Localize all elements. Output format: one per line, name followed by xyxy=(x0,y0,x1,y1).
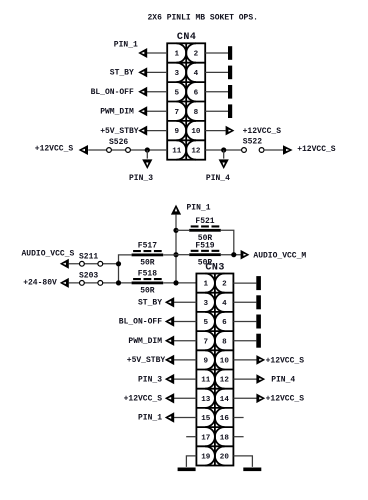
port arrow PWM_DIM xyxy=(138,106,147,116)
wire S522 to arrow xyxy=(264,149,283,151)
svg-text:S526: S526 xyxy=(109,138,128,147)
terminal bar pin 6 CN3 xyxy=(256,315,261,329)
svg-text:8: 8 xyxy=(194,109,199,117)
wire F521 right to F519 out xyxy=(221,230,234,254)
svg-text:F521: F521 xyxy=(195,217,214,226)
port arrow +12VCC_S CN3 xyxy=(165,393,174,403)
svg-text:7: 7 xyxy=(175,109,180,117)
junction node F519 left xyxy=(173,252,178,257)
port arrow PIN_3 CN3 xyxy=(165,374,174,384)
jumper S203 xyxy=(79,272,103,286)
fuse F518 50R xyxy=(132,270,164,296)
port arrow AUDIO_VCC_M xyxy=(241,250,250,260)
jumper S526 xyxy=(107,138,131,152)
svg-text:PWM_DIM: PWM_DIM xyxy=(100,107,134,116)
pin numbers 9,10 of CN4 xyxy=(175,128,201,136)
svg-text:2: 2 xyxy=(194,51,199,59)
wire pin 7 CN3 left xyxy=(174,340,197,342)
port arrow ST_BY CN3 xyxy=(165,297,174,307)
wire pin 8 CN3 right xyxy=(233,340,256,342)
pin marker PIN_1 top xyxy=(171,205,181,215)
wire pin 11 CN4 to S526 xyxy=(88,149,167,151)
terminal bar pin 8 xyxy=(228,104,232,118)
svg-text:4: 4 xyxy=(194,70,199,78)
wire F519 left xyxy=(176,254,189,256)
terminal bar pin 4 xyxy=(228,66,232,80)
wire pin 4 CN3 right xyxy=(233,301,256,303)
svg-text:S211: S211 xyxy=(79,253,98,262)
svg-text:PIN_1: PIN_1 xyxy=(114,41,138,50)
pin numbers 19,20 of CN3 xyxy=(201,454,229,462)
svg-text:6: 6 xyxy=(222,319,227,327)
svg-text:CN4: CN4 xyxy=(177,32,197,43)
svg-text:20: 20 xyxy=(220,454,230,462)
mounting tab pin 20 xyxy=(243,468,261,472)
wire pin 8 CN4 right xyxy=(205,110,228,112)
svg-text:15: 15 xyxy=(201,415,211,423)
svg-text:+5V_STBY: +5V_STBY xyxy=(100,127,139,136)
pin numbers 11,12 of CN4 xyxy=(172,148,201,156)
svg-text:4: 4 xyxy=(222,300,227,308)
svg-text:17: 17 xyxy=(201,434,211,442)
wire F518 to CN3 pin1 xyxy=(163,282,196,284)
terminal bar pin 6 xyxy=(228,85,232,99)
port arrow +12VCC_S right xyxy=(283,145,293,155)
fuse F519 50R xyxy=(189,242,221,268)
svg-text:PIN_4: PIN_4 xyxy=(206,174,230,183)
svg-text:BL_ON-OFF: BL_ON-OFF xyxy=(91,88,134,97)
port arrow BL_ON-OFF CN3 xyxy=(165,316,174,326)
wire pin 20 to tab xyxy=(233,456,252,467)
svg-text:PIN_1: PIN_1 xyxy=(138,414,162,423)
junction node AUDIO_VCC_M xyxy=(231,252,236,257)
wire pin 3 CN4 left xyxy=(147,71,168,73)
svg-text:9: 9 xyxy=(203,358,208,366)
junction node F521 left xyxy=(173,228,178,233)
terminal bar pin 8 CN3 xyxy=(256,334,261,348)
wire pin 10 CN4 xyxy=(205,130,225,132)
svg-text:+12VCC_S: +12VCC_S xyxy=(35,145,74,154)
port arrow +5V_STBY CN3 xyxy=(165,355,174,365)
port arrow +12VCC_S left xyxy=(79,145,88,155)
svg-text:13: 13 xyxy=(201,396,211,404)
wire pin 12 CN3 right xyxy=(233,378,256,380)
svg-text:5: 5 xyxy=(203,319,208,327)
pin numbers 11,12 of CN3 xyxy=(201,377,229,385)
svg-text:3: 3 xyxy=(175,70,180,78)
svg-text:12: 12 xyxy=(191,148,201,156)
svg-text:+12VCC_S: +12VCC_S xyxy=(266,356,305,365)
svg-text:+5V_STBY: +5V_STBY xyxy=(127,356,166,365)
svg-text:ST_BY: ST_BY xyxy=(110,69,134,78)
svg-text:PIN_3: PIN_3 xyxy=(138,375,162,384)
svg-text:AUDIO_VCC_S: AUDIO_VCC_S xyxy=(22,250,75,259)
wire pin 13 CN3 left xyxy=(174,397,197,399)
pin numbers 5,6 of CN4 xyxy=(175,89,199,97)
port arrow +12VCC_S CN3 right xyxy=(256,355,265,365)
pin numbers 1,2 of CN3 xyxy=(203,281,227,289)
svg-text:12: 12 xyxy=(220,377,230,385)
svg-text:50R: 50R xyxy=(140,259,155,268)
wire pin 10 CN3 right xyxy=(233,359,256,361)
svg-text:PIN_4: PIN_4 xyxy=(271,376,295,385)
svg-text:+24-80V: +24-80V xyxy=(23,279,57,288)
junction node pin11 xyxy=(145,147,150,152)
wire F517 right xyxy=(163,254,176,256)
terminal bar pin 2 CN3 xyxy=(256,276,261,290)
fuse F521 50R xyxy=(189,217,221,243)
svg-text:6: 6 xyxy=(194,89,199,97)
port arrow ST_BY xyxy=(138,67,147,77)
wire stub PIN_4 xyxy=(223,150,225,159)
pin numbers 5,6 of CN3 xyxy=(203,319,227,327)
port arrow PIN_4 CN3 right xyxy=(256,374,265,384)
svg-text:50R: 50R xyxy=(140,287,155,296)
svg-text:ST_BY: ST_BY xyxy=(138,299,162,308)
pin numbers 17,18 of CN3 xyxy=(201,434,229,442)
pin numbers 3,4 of CN4 xyxy=(175,70,199,78)
svg-text:F519: F519 xyxy=(195,242,214,251)
port arrow +12VCC_S CN3 right xyxy=(256,394,265,404)
wire pin 6 CN3 right xyxy=(233,321,256,323)
svg-text:PIN_3: PIN_3 xyxy=(129,174,153,183)
svg-text:PWM_DIM: PWM_DIM xyxy=(128,337,162,346)
wire pin 2 CN4 right xyxy=(205,52,228,54)
connector CN4 body xyxy=(167,43,205,159)
port arrow AUDIO_VCC_S xyxy=(60,259,69,269)
port arrow PWM_DIM CN3 xyxy=(165,336,174,346)
terminal bar pin 2 xyxy=(228,46,232,60)
svg-text:+12VCC_S: +12VCC_S xyxy=(266,395,305,404)
pin marker PIN_3 xyxy=(142,159,152,169)
wire pin 2 CN3 right xyxy=(233,282,256,284)
port arrow +24-80V xyxy=(60,278,69,288)
port arrow PIN_1 xyxy=(138,48,147,58)
svg-text:19: 19 xyxy=(201,454,211,462)
wire pin 19 to tab xyxy=(186,456,196,467)
jumper S522 xyxy=(242,138,264,153)
wire S211 xyxy=(69,263,119,265)
wire S203 xyxy=(69,282,132,284)
wire pin 3 CN3 left xyxy=(174,301,197,303)
svg-text:14: 14 xyxy=(220,396,230,404)
wire pin 7 CN4 left xyxy=(147,110,168,112)
svg-text:1: 1 xyxy=(203,281,208,289)
wire pin 14 CN3 right xyxy=(233,397,256,399)
svg-text:1: 1 xyxy=(175,51,180,59)
svg-text:F518: F518 xyxy=(138,270,157,279)
wire vertical bus PIN_1 xyxy=(175,215,177,283)
svg-text:CN3: CN3 xyxy=(205,262,225,273)
pin numbers 7,8 of CN3 xyxy=(203,338,227,346)
svg-text:PIN_1: PIN_1 xyxy=(187,203,211,212)
port arrow BL_ON-OFF xyxy=(138,87,147,97)
pin numbers 9,10 of CN3 xyxy=(203,358,229,366)
wire pin 11 CN3 left xyxy=(174,378,197,380)
svg-text:S522: S522 xyxy=(243,138,262,147)
wire stub PIN_3 xyxy=(146,150,148,159)
svg-text:+12VCC_S: +12VCC_S xyxy=(243,127,282,136)
pin numbers 15,16 of CN3 xyxy=(201,415,229,423)
pin numbers 3,4 of CN3 xyxy=(203,300,227,308)
jumper S211 xyxy=(79,253,103,267)
wire pin 1 CN4 left xyxy=(147,52,168,54)
wire pin 5 CN4 left xyxy=(147,91,168,93)
wire pin 4 CN4 right xyxy=(205,71,228,73)
svg-text:2: 2 xyxy=(222,281,227,289)
svg-text:S203: S203 xyxy=(79,272,98,281)
wire F517 left corner xyxy=(119,255,132,283)
svg-text:2X6 PINLI MB SOKET OPS.: 2X6 PINLI MB SOKET OPS. xyxy=(148,13,258,22)
svg-text:10: 10 xyxy=(220,358,230,366)
svg-text:7: 7 xyxy=(203,338,208,346)
pin numbers 13,14 of CN3 xyxy=(201,396,229,404)
wire pin 9 CN4 left xyxy=(147,130,168,132)
svg-text:8: 8 xyxy=(222,338,227,346)
svg-text:18: 18 xyxy=(220,434,230,442)
junction node S203 xyxy=(116,280,121,285)
svg-text:+12VCC_S: +12VCC_S xyxy=(124,395,163,404)
svg-text:9: 9 xyxy=(175,128,180,136)
wire stub pin 17 xyxy=(186,436,196,438)
svg-text:F517: F517 xyxy=(138,242,157,251)
wire stub pin 16 xyxy=(233,417,243,419)
svg-text:16: 16 xyxy=(220,415,230,423)
svg-text:+12VCC_S: +12VCC_S xyxy=(297,145,336,154)
mounting tab pin 19 xyxy=(178,468,196,472)
svg-text:BL_ON-OFF: BL_ON-OFF xyxy=(119,318,162,327)
port arrow PIN_1 CN3 xyxy=(165,412,174,422)
terminal bar pin 4 CN3 xyxy=(256,295,261,309)
svg-text:11: 11 xyxy=(172,148,182,156)
wire pin 15 CN3 left xyxy=(174,417,197,419)
svg-text:AUDIO_VCC_M: AUDIO_VCC_M xyxy=(253,251,306,260)
wire stub pin 18 xyxy=(233,436,243,438)
svg-text:11: 11 xyxy=(201,377,211,385)
svg-text:3: 3 xyxy=(203,300,208,308)
port arrow +12VCC_S pin10 xyxy=(226,126,235,136)
wire pin 12 CN4 to S522 xyxy=(205,149,241,151)
svg-text:10: 10 xyxy=(191,128,201,136)
port arrow +5V_STBY xyxy=(138,126,147,136)
junction node F518 out xyxy=(173,280,178,285)
fuse F517 50R xyxy=(132,242,164,268)
wire pin 9 CN3 left xyxy=(174,359,197,361)
wire F519 right xyxy=(221,254,241,256)
wire pin 5 CN3 left xyxy=(174,321,197,323)
pin numbers 7,8 of CN4 xyxy=(175,109,199,117)
svg-text:5: 5 xyxy=(175,89,180,97)
junction node pin12 xyxy=(221,147,226,152)
junction node S211 xyxy=(116,261,121,266)
pin numbers 1,2 of CN4 xyxy=(175,51,199,59)
connector CN3 body xyxy=(196,274,233,466)
wire F521 left xyxy=(176,229,189,231)
pin marker PIN_4 xyxy=(219,159,229,169)
wire pin 6 CN4 right xyxy=(205,91,228,93)
